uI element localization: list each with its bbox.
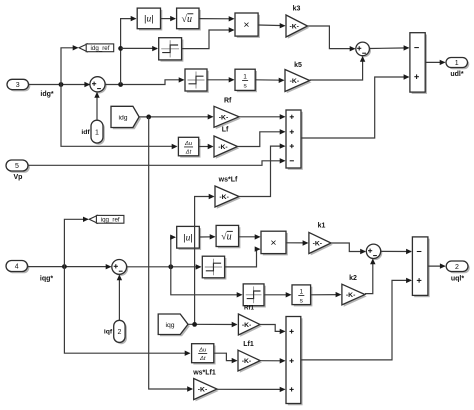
- wire sum A3 to port 2: [428, 265, 445, 267]
- svg-text:Δt: Δt: [199, 356, 206, 362]
- product block (q-axis): [263, 233, 288, 255]
- input port 3 (idg*): [9, 81, 31, 91]
- goto tag idg_ref: [79, 44, 87, 52]
- wire relay R4 to integrator (q-axis): [264, 294, 291, 296]
- wire relay R2 to integrator: [207, 79, 234, 81]
- wire gain Rf1 to sum A4 input 1: [260, 325, 285, 332]
- wire idg tag to gain Rf: [139, 116, 212, 118]
- svg-text:ws*Lf1: ws*Lf1: [192, 369, 216, 376]
- relay block R4 (q-axis lower): [245, 286, 266, 308]
- relay block R3 (q-axis upper): [204, 258, 226, 280]
- junction node idg: [146, 115, 151, 120]
- relay block R1 (d-axis upper): [161, 40, 184, 62]
- wire port3 to S1: [29, 84, 90, 86]
- wire idg* down to derivative: [61, 85, 177, 147]
- svg-text:-K-: -K-: [198, 387, 207, 394]
- junction node S3 out: [168, 264, 173, 269]
- sqrt block (d-axis): [178, 10, 200, 31]
- wire relay R3 to product lower (q-axis): [225, 249, 260, 267]
- gain ws*Lf: [217, 188, 241, 209]
- svg-text:Lf: Lf: [222, 127, 229, 134]
- integrator 1/s (q-axis): [294, 287, 313, 307]
- svg-text:Δu: Δu: [184, 141, 193, 147]
- wire abs to sqrt (q-axis): [199, 236, 214, 238]
- svg-text:-K-: -K-: [313, 241, 322, 248]
- svg-text:√u: √u: [221, 231, 232, 242]
- wire k3 to S2: [308, 26, 355, 49]
- gain k1: [311, 234, 333, 255]
- sum junction S2: [357, 44, 371, 58]
- wire gain ws*Lf to sum A2 input 3: [239, 146, 285, 196]
- svg-text:-K-: -K-: [242, 322, 251, 329]
- from tag iqg: [160, 316, 190, 337]
- svg-text:3: 3: [16, 82, 20, 89]
- output port 1 (udl*): [448, 59, 470, 69]
- junction node relay R1 feed: [118, 46, 123, 51]
- wire integrator to gain k5: [255, 79, 283, 81]
- wire sum A1 to port 1: [425, 61, 444, 63]
- svg-text:iqg*: iqg*: [40, 276, 53, 283]
- product block (d-axis): [237, 15, 260, 38]
- junction node iqg* branch: [62, 264, 67, 269]
- wire iqg* down to derivative (q-axis): [64, 267, 189, 354]
- relay block R2 (d-axis lower): [187, 71, 209, 93]
- svg-text:1: 1: [299, 288, 303, 295]
- svg-text:iqf: iqf: [104, 329, 113, 336]
- junction node S1 out: [118, 82, 123, 87]
- gain k5: [287, 71, 312, 93]
- wire S1 output: [105, 80, 183, 85]
- wire idf to S1: [96, 94, 98, 121]
- svg-text:Δu: Δu: [198, 347, 207, 353]
- sum block A3 (minus plus): [414, 239, 430, 298]
- wire k2 to S4 lower input: [365, 260, 373, 294]
- svg-text:-K-: -K-: [219, 194, 228, 201]
- wire sum A4 output to sum A3 plus input: [301, 280, 411, 360]
- wire relay R1 to product lower: [182, 30, 234, 49]
- svg-text:k1: k1: [318, 223, 326, 230]
- wire Vp to sum A2 minus input: [28, 161, 285, 166]
- input port 4 (iqg*): [8, 262, 30, 273]
- svg-text:-K-: -K-: [219, 114, 228, 121]
- wire gain ws*Lf1 to sum A4 input 3: [217, 388, 285, 390]
- sum block A2 (4 inputs): [288, 112, 303, 170]
- derivative block du/dt (d-axis): [180, 139, 200, 158]
- svg-text:-K-: -K-: [242, 358, 251, 365]
- abs block |u| (q-axis): [179, 228, 202, 250]
- wire derivative to gain Lf1: [214, 353, 237, 360]
- svg-text:1: 1: [455, 60, 459, 67]
- wire k5 to S2 lower input: [310, 58, 363, 81]
- wire port4 to S3: [28, 266, 111, 268]
- wire branch to idg_ref tag: [61, 48, 78, 85]
- wire gain Lf1 to sum A4 input 2: [260, 360, 284, 362]
- svg-text:iqg: iqg: [165, 322, 174, 329]
- wire iqf to S3: [118, 276, 120, 320]
- wire product to gain k1: [286, 242, 308, 244]
- gain Lf: [216, 138, 240, 159]
- svg-text:2: 2: [117, 329, 121, 336]
- wire down to relay R4: [171, 267, 242, 295]
- gain k2: [344, 286, 367, 307]
- svg-text:2: 2: [455, 264, 459, 271]
- sqrt block (q-axis): [218, 227, 241, 248]
- svg-text:|u|: |u|: [183, 232, 193, 243]
- svg-text:uql*: uql*: [451, 275, 464, 282]
- wire sqrt to product upper (d-axis): [199, 18, 234, 20]
- svg-text:iqg_ref: iqg_ref: [101, 217, 120, 224]
- gain Lf1: [240, 352, 262, 373]
- abs block |u| (d-axis): [139, 10, 162, 31]
- wire product to gain k3: [258, 24, 284, 27]
- svg-text:-K-: -K-: [346, 292, 355, 299]
- svg-text:Rf1: Rf1: [244, 305, 255, 312]
- sum block A1 (minus plus): [412, 35, 427, 94]
- wire branch to iqg_ref tag: [64, 219, 87, 266]
- svg-text:Δt: Δt: [185, 150, 192, 156]
- svg-text:k5: k5: [294, 62, 302, 69]
- wire up to abs (q-axis): [171, 237, 175, 267]
- wire S4 to sum A3 minus input: [381, 250, 411, 252]
- svg-text:idf: idf: [81, 129, 90, 136]
- svg-text:√u: √u: [182, 14, 193, 25]
- gain ws*Lf1: [196, 380, 219, 401]
- from tag idg: [113, 108, 141, 129]
- svg-text:Vp: Vp: [14, 174, 23, 181]
- wire integrator to gain k2: [311, 294, 341, 296]
- svg-text:Rf: Rf: [224, 97, 232, 104]
- sum block A4 (3 inputs): [288, 318, 303, 405]
- wire up to abs and relay R1: [121, 19, 136, 85]
- wire gain Lf to sum A2 input 2: [238, 132, 285, 147]
- sum junction S3: [113, 261, 128, 276]
- constant idf (1): [93, 122, 105, 145]
- wire S3 output to relay R3: [127, 266, 201, 268]
- svg-text:udl*: udl*: [450, 71, 463, 78]
- svg-text:idg: idg: [118, 115, 127, 122]
- wire iqg up to gain ws*Lf: [195, 197, 214, 325]
- svg-text:k3: k3: [293, 6, 301, 13]
- wire S2 to sum A1 minus input: [369, 47, 408, 50]
- svg-text:1: 1: [243, 73, 247, 80]
- output port 2 (uql*): [448, 263, 470, 274]
- svg-text:1: 1: [95, 129, 99, 136]
- wire gain Rf to sum A2 input 1: [239, 116, 285, 118]
- junction node iqg: [192, 322, 197, 327]
- svg-text:idg*: idg*: [40, 91, 53, 98]
- svg-text:-K-: -K-: [290, 78, 299, 85]
- gain Rf1: [240, 316, 262, 337]
- sum junction S4: [368, 246, 382, 260]
- svg-text:-K-: -K-: [218, 144, 227, 151]
- svg-text:×: ×: [270, 237, 276, 249]
- constant iqf (2): [116, 322, 127, 344]
- wire sum A2 output to sum A1 plus input: [301, 77, 409, 138]
- goto tag iqg_ref: [89, 215, 97, 223]
- gain k3: [288, 17, 310, 39]
- wire k1 to S4: [331, 243, 365, 252]
- gain Rf: [216, 108, 241, 129]
- wire idg down to gain ws*Lf1: [149, 117, 192, 389]
- input port 5 (Vp): [8, 162, 30, 173]
- sum junction S1: [92, 78, 107, 93]
- wire derivative to gain Lf: [199, 146, 213, 148]
- svg-text:|u|: |u|: [144, 14, 154, 25]
- svg-text:4: 4: [15, 264, 19, 271]
- svg-text:Lf1: Lf1: [243, 341, 254, 348]
- svg-text:5: 5: [15, 163, 19, 170]
- wire sqrt to product upper (q-axis): [239, 236, 260, 238]
- wire iqg tag to gain Rf1: [188, 323, 237, 325]
- wire abs to sqrt (d-axis): [161, 18, 176, 20]
- integrator 1/s (d-axis): [237, 71, 257, 92]
- junction node idg* branch: [59, 82, 64, 87]
- svg-text:ws*Lf: ws*Lf: [218, 177, 238, 184]
- svg-text:-K-: -K-: [289, 24, 298, 31]
- wire to relay R1: [121, 47, 157, 49]
- derivative block du/dt (q-axis): [193, 346, 215, 365]
- svg-text:k2: k2: [349, 275, 357, 282]
- svg-text:×: ×: [243, 19, 249, 31]
- svg-text:idg_ref: idg_ref: [91, 45, 110, 52]
